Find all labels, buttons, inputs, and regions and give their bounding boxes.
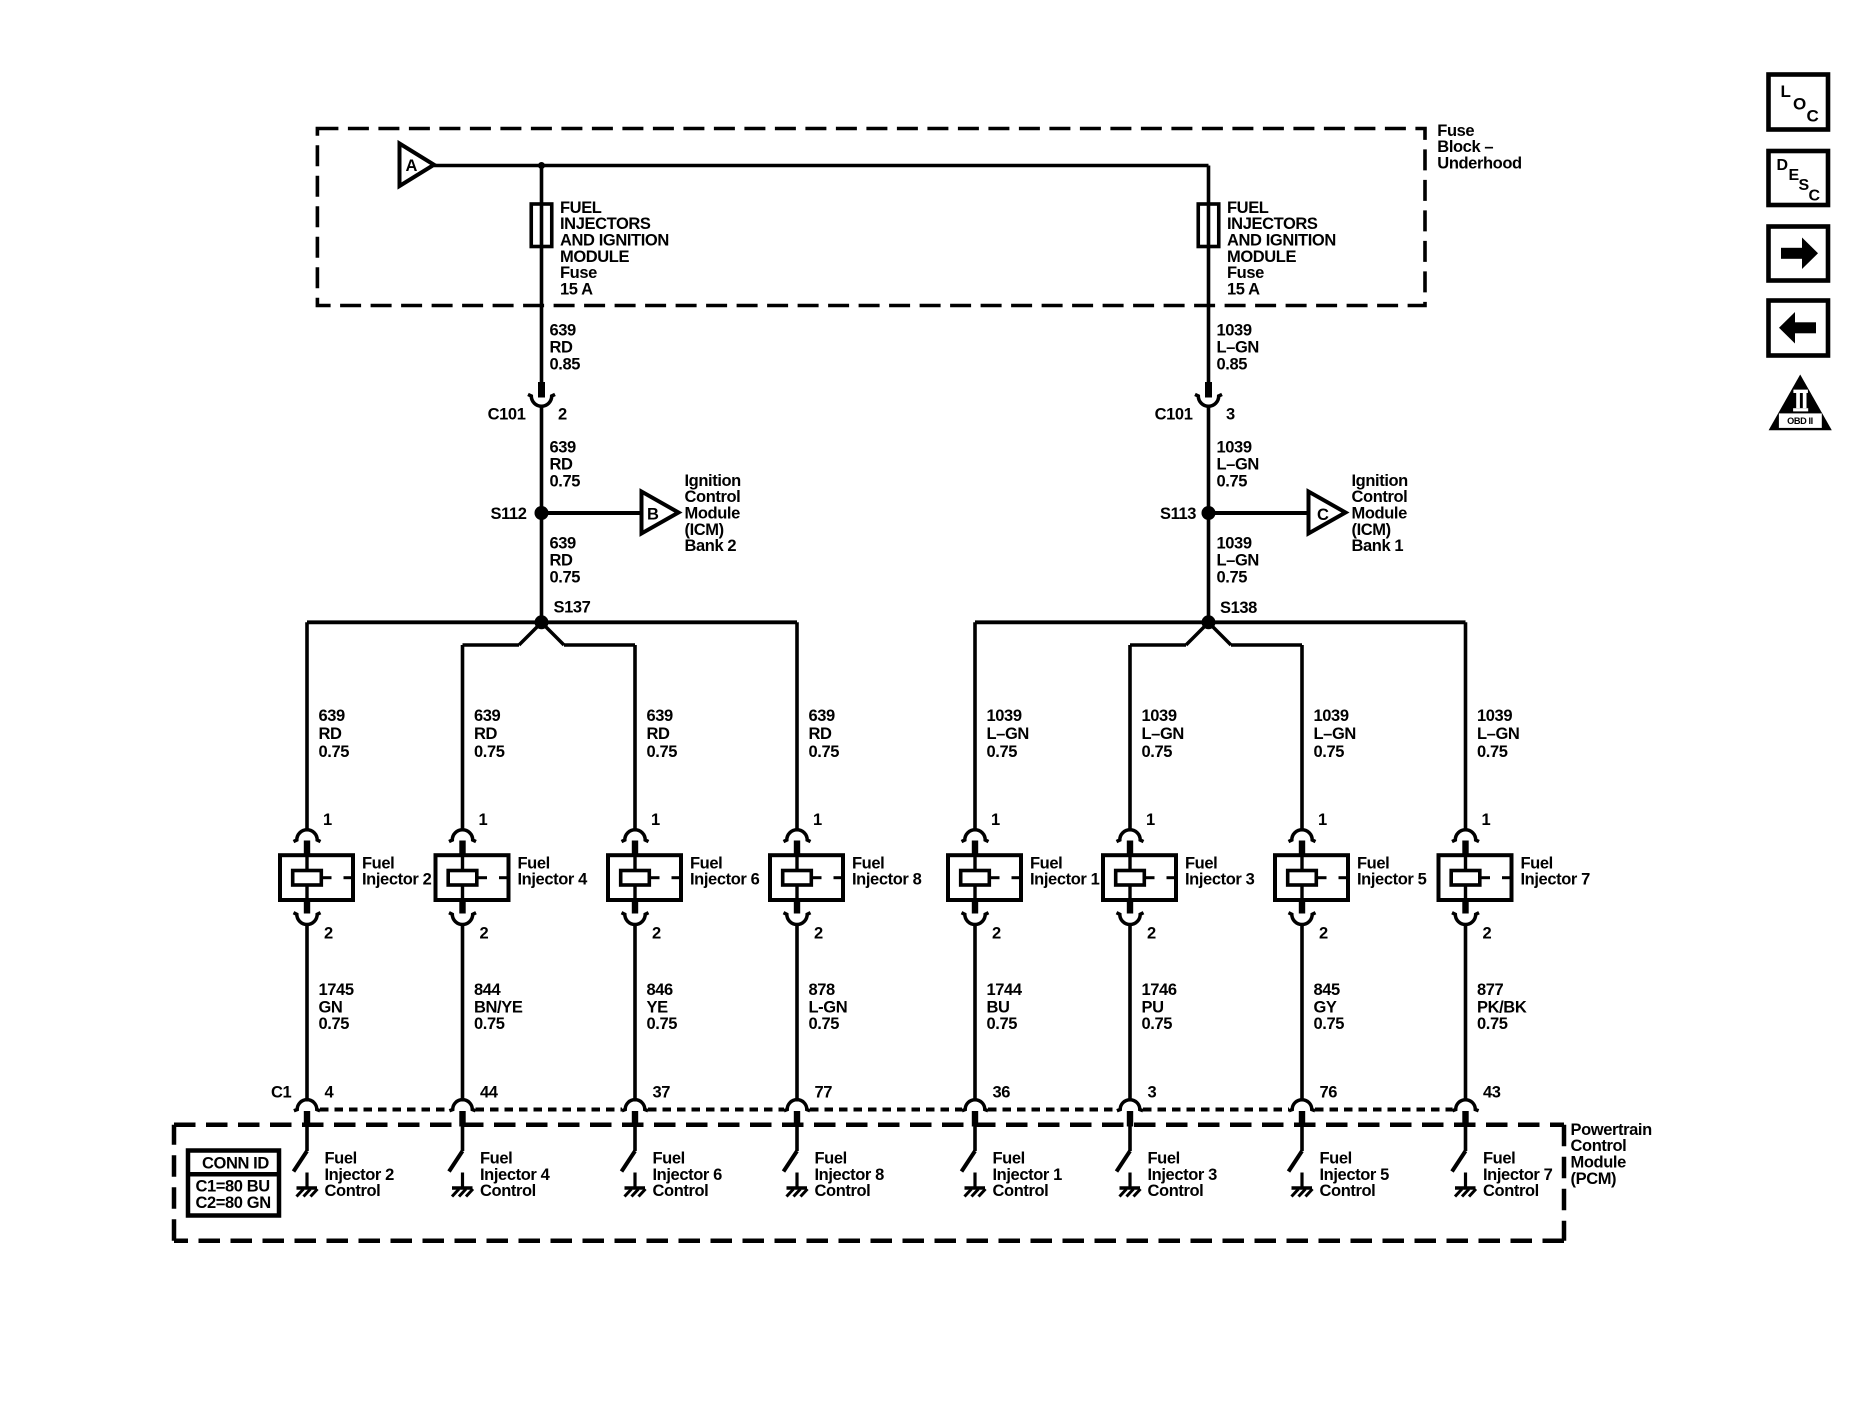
svg-text:RD: RD [809,725,833,743]
svg-text:Block –: Block – [1437,138,1493,156]
svg-text:Control: Control [480,1182,536,1200]
svg-text:C101: C101 [488,406,526,424]
svg-text:1039: 1039 [1217,534,1252,552]
svg-text:S137: S137 [554,598,591,616]
svg-text:Fuel: Fuel [1521,854,1553,872]
svg-text:S112: S112 [490,505,526,523]
svg-text:L–GN: L–GN [1477,725,1519,743]
svg-text:1: 1 [1482,811,1491,829]
svg-text:Fuel: Fuel [815,1150,847,1168]
svg-text:RD: RD [550,455,574,473]
svg-text:1039: 1039 [1314,707,1349,725]
svg-text:0.75: 0.75 [1477,1015,1508,1033]
svg-text:Fuel: Fuel [993,1150,1025,1168]
svg-text:0.75: 0.75 [319,1015,350,1033]
svg-text:Injector 7: Injector 7 [1483,1166,1553,1184]
svg-text:Control: Control [653,1182,709,1200]
svg-text:(PCM): (PCM) [1571,1170,1617,1188]
svg-text:845: 845 [1314,981,1341,999]
svg-text:2: 2 [480,924,489,942]
svg-text:Powertrain: Powertrain [1571,1121,1653,1139]
svg-text:1: 1 [991,811,1000,829]
svg-text:Control: Control [685,488,741,506]
svg-text:0.75: 0.75 [1217,472,1248,490]
svg-text:639: 639 [474,707,501,725]
svg-text:76: 76 [1320,1084,1338,1102]
svg-text:2: 2 [652,924,661,942]
svg-text:Bank 2: Bank 2 [685,537,737,555]
svg-text:0.75: 0.75 [647,743,678,761]
svg-text:FUEL: FUEL [560,199,602,217]
svg-text:Fuel: Fuel [518,854,550,872]
svg-text:1: 1 [479,811,488,829]
svg-text:Fuel: Fuel [480,1150,512,1168]
svg-text:1: 1 [1318,811,1327,829]
svg-text:MODULE: MODULE [1227,248,1296,266]
svg-text:Fuel: Fuel [690,854,722,872]
svg-text:Injector 4: Injector 4 [480,1166,551,1184]
svg-text:0.85: 0.85 [1217,355,1248,373]
svg-text:S113: S113 [1160,505,1196,523]
svg-text:AND IGNITION: AND IGNITION [560,232,669,250]
svg-text:Injector 2: Injector 2 [325,1166,395,1184]
svg-text:C2=80 GN: C2=80 GN [196,1194,271,1212]
svg-text:C101: C101 [1155,406,1193,424]
svg-text:C1: C1 [271,1084,292,1102]
svg-text:Injector 7: Injector 7 [1521,871,1591,889]
svg-text:2: 2 [992,924,1001,942]
svg-text:RD: RD [319,725,343,743]
svg-text:2: 2 [1483,924,1492,942]
svg-text:Injector 3: Injector 3 [1185,871,1255,889]
svg-text:0.75: 0.75 [987,1015,1018,1033]
svg-text:43: 43 [1483,1084,1501,1102]
svg-text:Injector 8: Injector 8 [815,1166,885,1184]
svg-text:BU: BU [987,998,1010,1016]
svg-text:Fuel: Fuel [1357,854,1389,872]
svg-text:Fuel: Fuel [362,854,394,872]
svg-text:OBD II: OBD II [1787,416,1813,426]
svg-text:FUEL: FUEL [1227,199,1269,217]
svg-text:0.75: 0.75 [1217,568,1248,586]
svg-text:Ignition: Ignition [1352,472,1409,490]
svg-text:MODULE: MODULE [560,248,629,266]
svg-text:INJECTORS: INJECTORS [560,215,651,233]
svg-text:(ICM): (ICM) [685,521,724,539]
svg-text:1: 1 [651,811,660,829]
svg-text:1744: 1744 [987,981,1023,999]
svg-text:Injector 1: Injector 1 [1030,871,1100,889]
svg-text:1: 1 [323,811,332,829]
svg-text:877: 877 [1477,981,1504,999]
svg-text:Module: Module [685,505,741,523]
svg-text:PK/BK: PK/BK [1477,998,1527,1016]
svg-text:Control: Control [993,1182,1049,1200]
svg-text:L: L [1781,82,1791,101]
svg-text:Injector 5: Injector 5 [1357,871,1427,889]
svg-text:639: 639 [550,321,577,339]
svg-text:1746: 1746 [1142,981,1177,999]
svg-text:S138: S138 [1220,599,1257,617]
svg-text:77: 77 [815,1084,833,1102]
svg-text:Injector 6: Injector 6 [690,871,760,889]
svg-text:Underhood: Underhood [1437,155,1521,173]
svg-text:639: 639 [319,707,346,725]
svg-text:L–GN: L–GN [1217,338,1259,356]
svg-text:Injector 3: Injector 3 [1148,1166,1218,1184]
svg-text:Fuel: Fuel [1320,1150,1352,1168]
svg-text:3: 3 [1226,406,1235,424]
svg-text:Injector 6: Injector 6 [653,1166,723,1184]
svg-text:0.75: 0.75 [550,472,581,490]
svg-text:Fuse: Fuse [1437,122,1474,140]
svg-text:1039: 1039 [987,707,1022,725]
svg-text:C: C [1317,506,1329,524]
svg-text:4: 4 [325,1084,335,1102]
svg-text:0.75: 0.75 [474,1015,505,1033]
svg-text:Module: Module [1352,505,1408,523]
svg-text:Bank 1: Bank 1 [1352,537,1404,555]
svg-text:Injector 8: Injector 8 [852,871,922,889]
svg-text:Fuel: Fuel [1185,854,1217,872]
svg-text:639: 639 [550,534,577,552]
svg-text:(ICM): (ICM) [1352,521,1391,539]
svg-text:2: 2 [814,924,823,942]
svg-text:PU: PU [1142,998,1164,1016]
svg-text:36: 36 [993,1084,1011,1102]
svg-text:Fuel: Fuel [852,854,884,872]
svg-text:Injector 2: Injector 2 [362,871,432,889]
svg-text:Fuse: Fuse [1227,264,1264,282]
svg-text:Control: Control [325,1182,381,1200]
svg-text:L–GN: L–GN [1142,725,1184,743]
svg-text:15 A: 15 A [1227,280,1260,298]
svg-text:Fuel: Fuel [1030,854,1062,872]
svg-text:AND IGNITION: AND IGNITION [1227,232,1336,250]
svg-text:0.75: 0.75 [809,743,840,761]
svg-text:1039: 1039 [1142,707,1177,725]
svg-text:RD: RD [550,551,574,569]
svg-text:3: 3 [1148,1084,1157,1102]
svg-text:846: 846 [647,981,674,999]
svg-text:L-GN: L-GN [809,998,848,1016]
svg-text:L–GN: L–GN [987,725,1029,743]
svg-text:O: O [1793,94,1806,113]
svg-text:Fuel: Fuel [325,1150,357,1168]
svg-text:Fuse: Fuse [560,264,597,282]
svg-text:D: D [1777,157,1788,174]
svg-text:INJECTORS: INJECTORS [1227,215,1318,233]
svg-text:Injector 1: Injector 1 [993,1166,1063,1184]
svg-text:844: 844 [474,981,502,999]
svg-text:Control: Control [815,1182,871,1200]
svg-text:1039: 1039 [1217,321,1252,339]
svg-text:B: B [647,506,659,524]
svg-text:0.75: 0.75 [1142,1015,1173,1033]
svg-text:C1=80 BU: C1=80 BU [196,1177,270,1195]
svg-text:0.75: 0.75 [1314,743,1345,761]
svg-text:0.75: 0.75 [809,1015,840,1033]
svg-text:0.75: 0.75 [550,568,581,586]
svg-text:2: 2 [1319,924,1328,942]
svg-text:L–GN: L–GN [1217,551,1259,569]
svg-text:37: 37 [653,1084,671,1102]
svg-text:0.75: 0.75 [1314,1015,1345,1033]
svg-text:Fuel: Fuel [1148,1150,1180,1168]
svg-text:0.75: 0.75 [474,743,505,761]
svg-text:Control: Control [1148,1182,1204,1200]
svg-text:15 A: 15 A [560,280,593,298]
svg-text:1039: 1039 [1477,707,1512,725]
svg-text:2: 2 [324,924,333,942]
svg-text:2: 2 [1147,924,1156,942]
svg-text:YE: YE [647,998,669,1016]
svg-text:1: 1 [813,811,822,829]
svg-text:L–GN: L–GN [1314,725,1356,743]
svg-text:Injector 4: Injector 4 [518,871,589,889]
svg-text:Fuel: Fuel [653,1150,685,1168]
svg-text:BN/YE: BN/YE [474,998,523,1016]
svg-text:A: A [406,157,418,175]
svg-text:878: 878 [809,981,836,999]
svg-text:639: 639 [550,438,577,456]
svg-text:RD: RD [647,725,671,743]
svg-text:0.75: 0.75 [647,1015,678,1033]
svg-text:Control: Control [1352,488,1408,506]
svg-text:Injector 5: Injector 5 [1320,1166,1390,1184]
svg-text:0.75: 0.75 [1477,743,1508,761]
svg-text:0.85: 0.85 [550,355,581,373]
svg-text:0.75: 0.75 [319,743,350,761]
svg-text:RD: RD [474,725,498,743]
svg-text:0.75: 0.75 [1142,743,1173,761]
svg-text:Control: Control [1571,1137,1627,1155]
svg-text:L–GN: L–GN [1217,455,1259,473]
svg-text:GN: GN [319,998,343,1016]
svg-text:C: C [1809,187,1821,204]
svg-text:RD: RD [550,338,574,356]
svg-text:Ignition: Ignition [685,472,742,490]
svg-text:1745: 1745 [319,981,354,999]
svg-text:1039: 1039 [1217,438,1252,456]
svg-text:C: C [1807,106,1819,125]
svg-text:639: 639 [647,707,674,725]
svg-text:639: 639 [809,707,836,725]
svg-text:2: 2 [558,406,567,424]
svg-text:GY: GY [1314,998,1337,1016]
svg-text:0.75: 0.75 [987,743,1018,761]
svg-text:CONN ID: CONN ID [202,1155,269,1173]
svg-text:Module: Module [1571,1154,1627,1172]
svg-text:44: 44 [480,1084,499,1102]
svg-text:1: 1 [1146,811,1155,829]
svg-text:Control: Control [1483,1182,1539,1200]
svg-text:Control: Control [1320,1182,1376,1200]
svg-text:Fuel: Fuel [1483,1150,1515,1168]
